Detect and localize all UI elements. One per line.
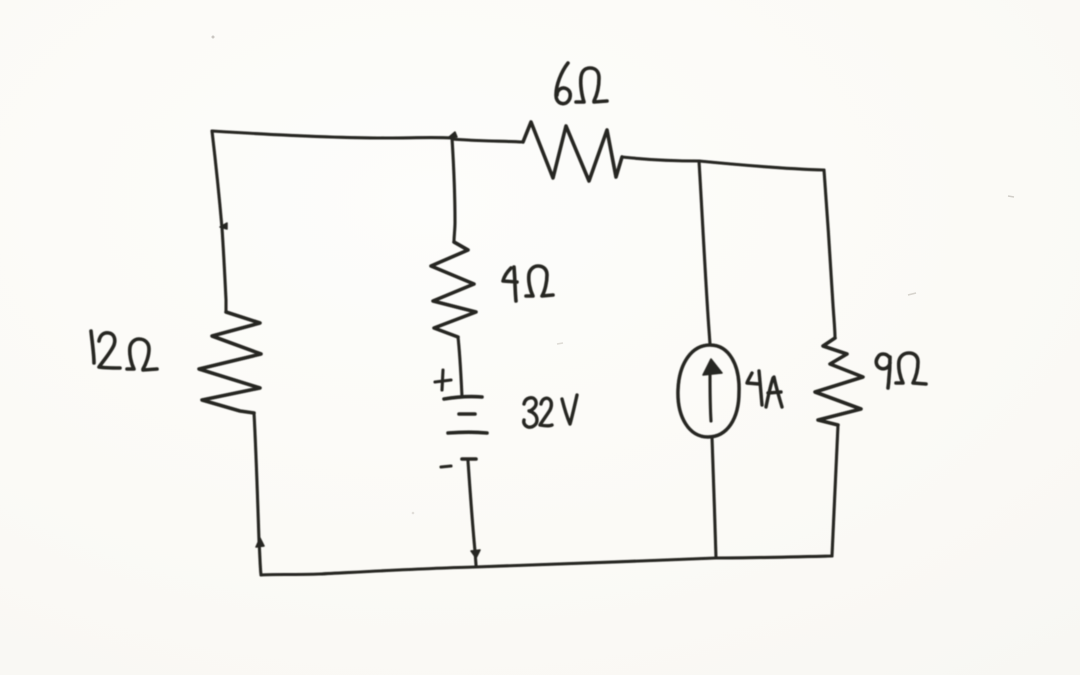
battery V1 plate short 2: [462, 457, 476, 461]
current source arrow shaft: [710, 374, 711, 421]
paper speck 5: [412, 512, 415, 515]
wire node B down to current source: [699, 161, 710, 344]
resistor R1 (12 ohm): [199, 312, 261, 413]
label 9 ohm : digit 9: [876, 354, 890, 388]
wire 6ohm to node B: [622, 157, 699, 161]
paper speck 4: [908, 293, 916, 295]
wire battery to bottom: [468, 461, 476, 565]
wire top-left horizontal: [212, 131, 452, 138]
resistor R4 (9 ohm): [815, 338, 863, 425]
wire 4ohm to battery: [458, 337, 462, 397]
wire bottom horizontal: [261, 556, 832, 575]
arrowhead tick at battery bottom junction: [471, 550, 480, 558]
junction tick on left wire: [220, 223, 227, 229]
wire right vertical down to 9ohm: [824, 170, 835, 338]
label 32V : letter V: [562, 395, 577, 424]
wire current source to bottom: [712, 437, 716, 558]
label 4A : digit 4: [747, 371, 762, 405]
resistor R2 (6 ohm): [523, 122, 622, 181]
wire middle vertical (node A down to 4ohm): [452, 138, 455, 242]
battery V1 plate long top: [444, 397, 482, 399]
wire top middle (node A to 6ohm): [452, 139, 523, 142]
current source I1 circle: [678, 345, 739, 437]
label 32V : digit 3: [524, 398, 537, 427]
label 4A : letter A: [766, 377, 782, 407]
current source arrowhead: [703, 359, 722, 375]
wire 9ohm down to bottom-right corner: [832, 425, 838, 556]
label 32V : digit 2: [540, 398, 552, 426]
battery V1 plate short 1: [459, 412, 475, 416]
wire left vertical upper: [212, 131, 226, 312]
plus sign: [435, 370, 451, 390]
label 12 ohm : digit 2: [99, 333, 120, 368]
resistor R3 (4 ohm): [431, 242, 476, 337]
paper speck 3: [557, 343, 563, 344]
paper speck 1: [212, 36, 215, 39]
junction node A tick: [448, 132, 457, 138]
paper speck 2: [1008, 196, 1014, 197]
battery V1 plate long bottom: [448, 430, 487, 434]
label 9 ohm : omega: [896, 353, 926, 384]
arrowhead tick on left lower wire: [256, 538, 264, 547]
minus sign: [441, 466, 451, 467]
label 4 ohm : digit 4: [503, 267, 517, 301]
label 4 ohm : omega: [526, 266, 553, 296]
label 12 ohm : digit 1: [91, 331, 94, 363]
wire left vertical lower: [254, 413, 261, 575]
label 6 ohm : omega: [576, 68, 607, 102]
label 6 ohm : digit 6: [556, 63, 570, 104]
label 12 ohm : omega: [127, 339, 157, 370]
wire node B to top-right corner: [699, 161, 824, 170]
